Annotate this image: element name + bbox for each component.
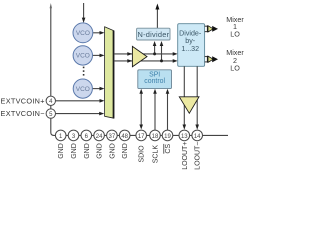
mixer2 LO buffer icon (207, 56, 208, 63)
wire between pins 4 and 5 (50, 106, 52, 109)
svg-text:LO: LO (230, 64, 240, 73)
svg-text:19: 19 (164, 134, 171, 140)
wire VCO1 out (93, 32, 102, 34)
svg-text:EXTVCOIN+: EXTVCOIN+ (1, 96, 45, 105)
arrowheads into divide block (173, 52, 178, 56)
svg-text:CS: CS (165, 144, 172, 154)
wire tune line into VCO1 (83, 3, 85, 20)
wire tap to N-divider (-) (161, 44, 163, 61)
wire CS to SPI (167, 92, 169, 130)
svg-text:17: 17 (138, 134, 145, 140)
pin 6 GND (81, 130, 92, 141)
wire divide to LO buffer + (183, 66, 185, 126)
svg-text:GND: GND (84, 143, 91, 159)
wire divide to LO buffer - (196, 66, 198, 126)
pin 19 CS-bar (162, 130, 173, 141)
svg-text:GND: GND (122, 143, 129, 159)
divide-by block (178, 24, 205, 67)
SPI control block (138, 70, 172, 89)
wire VCO2 out (93, 54, 102, 56)
svg-text:48: 48 (121, 134, 128, 140)
VCO ellipsis dots (83, 67, 85, 69)
svg-text:37: 37 (109, 134, 116, 140)
svg-text:LOOUT−: LOOUT− (195, 142, 202, 170)
svg-text:18: 18 (152, 134, 159, 140)
pin 4 EXTVCOIN+ (46, 96, 55, 105)
mixer2 LO stubs (205, 56, 208, 58)
wire REF line from phase detector (top-left) (50, 6, 52, 96)
wire SDIO to SPI (bidirectional) (140, 92, 142, 126)
VCO 2 (73, 46, 92, 65)
svg-text:24: 24 (96, 134, 103, 140)
svg-text:13: 13 (181, 134, 188, 140)
svg-text:14: 14 (194, 134, 201, 140)
mixer1 LO buffer icon (207, 26, 208, 33)
wire pin5 down to chip edge corner (51, 118, 56, 135)
svg-text:GND: GND (71, 143, 78, 159)
svg-text:EXTVCOIN−: EXTVCOIN− (1, 109, 45, 118)
pin 3 GND (68, 130, 79, 141)
svg-text:N-divider: N-divider (137, 30, 169, 39)
wire pin4 EXTVCOIN+ to mux (56, 100, 102, 102)
wire SCLK to SPI (154, 92, 156, 130)
svg-text:by-: by- (185, 37, 195, 45)
svg-text:VCO: VCO (76, 53, 90, 60)
wire chip bottom edge through pins (55, 134, 228, 136)
VCO 3 (73, 79, 92, 98)
pin 48 GND (119, 130, 130, 141)
wire rail+ mux to divider (114, 53, 175, 55)
N-divider block (137, 28, 170, 40)
pin 37 GND (107, 130, 118, 141)
svg-text:control: control (144, 78, 165, 85)
svg-text:1...32: 1...32 (181, 45, 199, 53)
pin 13 LOOUT+ (179, 130, 190, 141)
LO output buffer A2 (179, 97, 199, 114)
wire N-divider to phase detector (top) (156, 8, 158, 28)
arrowheads into buffer amp (127, 52, 132, 56)
pin 18 SCLK (150, 130, 161, 141)
mux select bar (105, 27, 114, 118)
svg-text:LO: LO (230, 30, 240, 39)
wire rail- mux to divider (114, 60, 175, 62)
pin 1 GND (55, 130, 66, 141)
svg-text:GND: GND (58, 143, 65, 159)
svg-text:GND: GND (109, 143, 116, 159)
pin 14 LOOUT- (192, 130, 203, 141)
svg-text:LOOUT+: LOOUT+ (182, 142, 189, 170)
svg-text:VCO: VCO (76, 30, 90, 37)
svg-text:GND: GND (97, 143, 104, 159)
wire pin5 EXTVCOIN- to mux (56, 113, 102, 115)
svg-text:SDIO: SDIO (139, 145, 146, 163)
buffer amp A1 (132, 46, 147, 66)
pin 5 EXTVCOIN- (46, 109, 55, 118)
wire VCO3 out (92, 88, 101, 90)
wire tap to N-divider (+) (154, 44, 156, 54)
svg-text:VCO: VCO (76, 86, 90, 93)
svg-text:SCLK: SCLK (153, 145, 160, 164)
pin 24 GND (94, 130, 105, 141)
pin 17 SDIO (136, 130, 147, 141)
mixer1 LO stubs (205, 25, 208, 27)
VCO 1 (73, 23, 93, 43)
